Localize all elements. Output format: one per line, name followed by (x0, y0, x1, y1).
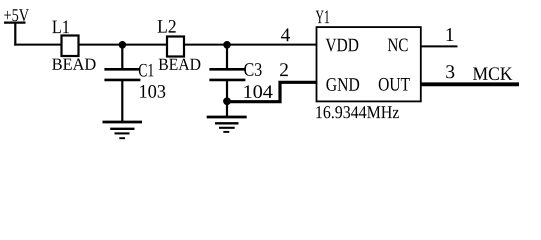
label L2 (158, 20, 176, 33)
label 103 (140, 85, 165, 98)
power +5V bar (4, 22, 26, 24)
pin label 2 (280, 63, 288, 76)
ground for C3 (207, 117, 247, 132)
wire junction to C3 (226, 45, 228, 69)
pin name OUT (379, 78, 410, 91)
label L1 (52, 21, 69, 34)
inductor L2 (ferrite bead box) (167, 37, 184, 57)
power +5V label (4, 9, 29, 21)
wire main horizontal (14, 44, 316, 46)
label Y1 (316, 11, 329, 24)
wire C3 to ground (226, 81, 228, 116)
wire GND pin stepped to C3 leg (227, 82, 317, 101)
junction node GND wire on C3 leg (223, 97, 231, 105)
pin name VDD (326, 39, 359, 52)
capacitor C1 bottom plate (104, 79, 140, 82)
crystal oscillator Y1 box (317, 27, 421, 101)
capacitor C3 top plate (209, 68, 245, 71)
capacitor C1 top plate (104, 68, 140, 71)
junction node at C1 tap (119, 41, 127, 49)
junction node at C3 tap (223, 41, 231, 49)
pin label 1 (447, 28, 454, 41)
wire pin 3 OUT (MCK net, bold) (421, 82, 519, 86)
wire junction to C1 (121, 45, 123, 69)
pin name GND (326, 78, 359, 91)
label C1 (139, 64, 154, 77)
label BEAD for L1 (52, 58, 95, 69)
pin name NC (388, 39, 408, 52)
net label MCK (473, 67, 512, 80)
wire C1 to ground (121, 81, 123, 122)
wire from +5V down (14, 22, 16, 46)
value label 16.9344MHz (316, 106, 399, 118)
label C3 (244, 63, 261, 76)
wire pin 1 NC (421, 45, 458, 47)
pin label 4 (281, 28, 290, 41)
label 104 (244, 85, 272, 98)
capacitor C3 bottom plate (209, 79, 245, 82)
ground for C1 (103, 122, 143, 138)
pin label 3 (446, 65, 454, 78)
inductor L1 (ferrite bead box) (62, 36, 79, 57)
label BEAD for L2 (159, 59, 201, 70)
